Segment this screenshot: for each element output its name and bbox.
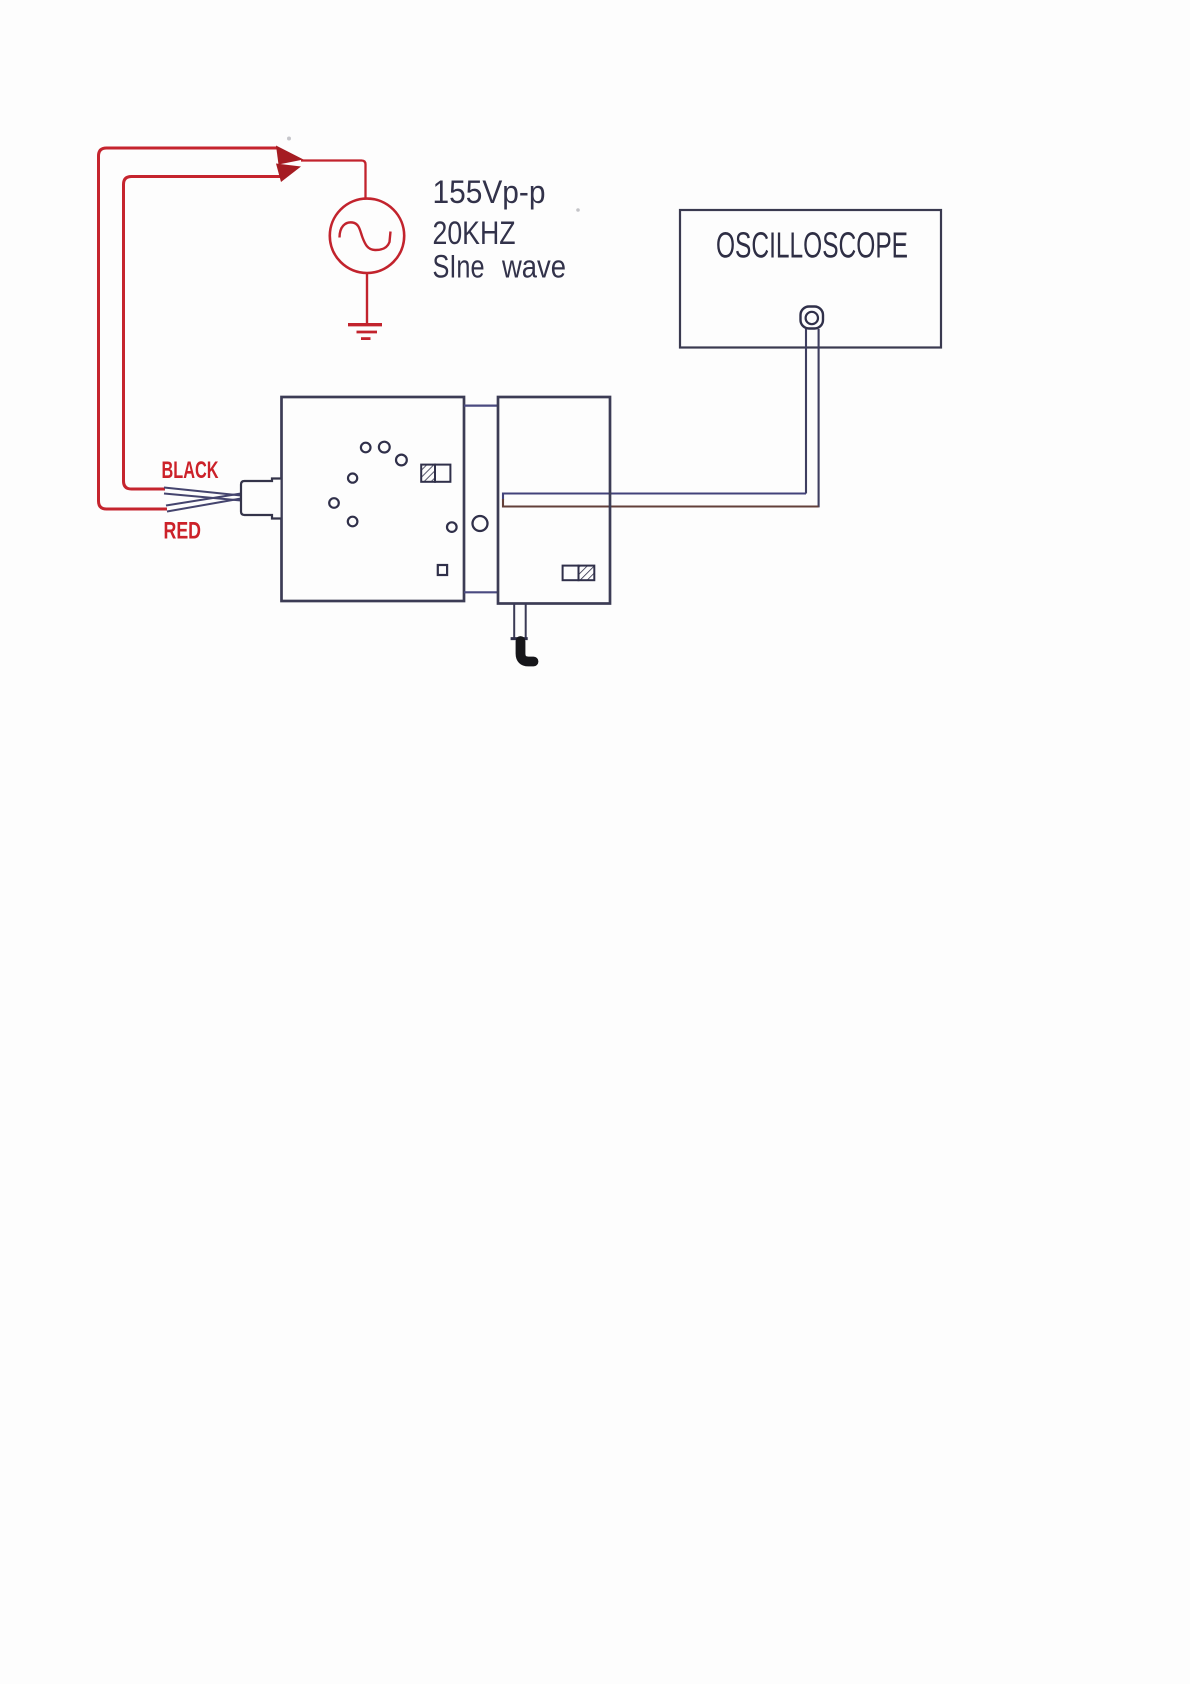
- wire source to ground: [366, 274, 368, 324]
- horn body box2: [498, 397, 610, 604]
- probe shaft bar: [503, 494, 806, 501]
- hole 8 small square: [438, 565, 447, 575]
- hole 3: [396, 455, 407, 466]
- connector plug: [241, 479, 281, 519]
- speck mark top: [287, 137, 291, 141]
- oscilloscope box: [680, 210, 941, 348]
- thick cable bend: [521, 641, 534, 662]
- wire red inner loop (signal lead to BLACK wire): [124, 177, 283, 490]
- BNC connector on oscilloscope: [801, 307, 824, 329]
- svg-text:RED: RED: [164, 518, 202, 545]
- lead wire 4: [167, 499, 241, 512]
- svg-text:OSCILLOSCOPE: OSCILLOSCOPE: [716, 225, 908, 266]
- transducer body box1: [282, 397, 465, 601]
- lead wire 1: [164, 488, 241, 496]
- svg-text:SIne: SIne: [433, 249, 485, 285]
- hatched marker on box1: [421, 465, 450, 482]
- hole 2: [379, 442, 390, 453]
- hole 4: [348, 474, 357, 483]
- svg-text:wave: wave: [501, 249, 566, 285]
- svg-text:155Vp-p: 155Vp-p: [433, 174, 546, 210]
- hole 6: [348, 517, 358, 527]
- cable stub below box2: [513, 604, 515, 638]
- hole 7: [447, 522, 457, 532]
- neck between box1 and box2: [464, 405, 498, 407]
- ground symbol: [348, 325, 382, 339]
- probe cable (double line riser): [805, 329, 807, 494]
- arrowhead top: [276, 146, 304, 165]
- wire from arrows to source V1: [301, 161, 366, 199]
- arrowhead lower: [276, 164, 301, 183]
- speck mark right of 155Vp-p: [576, 208, 580, 212]
- hole 1: [361, 443, 371, 453]
- AC source V1 circle: [330, 199, 404, 273]
- svg-text:BLACK: BLACK: [162, 457, 219, 484]
- wire red outer loop (signal lead to RED wire): [99, 148, 278, 509]
- hatched marker on box2: [563, 566, 595, 581]
- lead wire 3: [166, 494, 241, 506]
- hole 9 between boxes: [473, 516, 488, 531]
- lead wire 2: [164, 494, 241, 501]
- AC source sine symbol: [340, 222, 391, 250]
- hole 5: [329, 498, 339, 508]
- svg-text:20KHZ: 20KHZ: [433, 215, 516, 251]
